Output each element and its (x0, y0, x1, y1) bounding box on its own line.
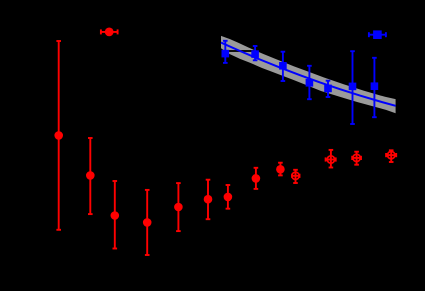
bar S6 (352, 51, 354, 124)
red legend marker (101, 29, 118, 34)
point P6 (204, 195, 213, 204)
bar S2 (254, 46, 256, 60)
square S4 (306, 79, 314, 87)
blue fit curve (221, 43, 396, 106)
bar S7 (373, 58, 375, 117)
point P8 (252, 174, 261, 183)
red open-circle points with x/y error bars (292, 150, 396, 183)
bar P5 (177, 183, 179, 231)
square S3 (279, 62, 287, 70)
square S2 (251, 50, 259, 58)
circle P11 (327, 156, 334, 163)
confidence band (gray) of blue fit curve (221, 36, 396, 113)
bar P12 (356, 152, 358, 165)
bar P4 (146, 190, 148, 255)
bar P13 (390, 150, 392, 162)
bar P10 (295, 170, 297, 183)
square S1 (222, 50, 230, 58)
black horizontal line crossing the band (200, 50, 425, 52)
square S7 (371, 82, 379, 90)
blue error bars (223, 41, 377, 124)
bar P11 (330, 150, 332, 168)
bar P2 (89, 138, 91, 214)
point P3 (111, 211, 120, 220)
red filled circle markers (54, 131, 284, 227)
point P1 (54, 131, 63, 140)
red error bars (filled-circle points) (56, 41, 282, 255)
bar S3 (282, 52, 284, 81)
bar S5 (327, 81, 329, 97)
point P9 (276, 165, 285, 174)
point P4 (143, 218, 152, 227)
blue square markers (222, 50, 379, 92)
bar P6 (207, 180, 209, 220)
point P5 (174, 203, 183, 212)
circle P12 (353, 154, 360, 161)
point P2 (86, 171, 95, 180)
bar P8 (255, 168, 257, 189)
square S6 (349, 83, 357, 91)
square S5 (324, 85, 332, 93)
bar P1 (58, 41, 60, 230)
circle P10 (292, 172, 299, 179)
bar P7 (227, 185, 229, 209)
bar S4 (308, 66, 310, 99)
blue legend marker (369, 32, 386, 37)
point P7 (224, 193, 233, 202)
bar S1 (224, 41, 226, 63)
circle P13 (388, 151, 395, 158)
bar P3 (114, 181, 116, 249)
bar P9 (279, 163, 281, 176)
